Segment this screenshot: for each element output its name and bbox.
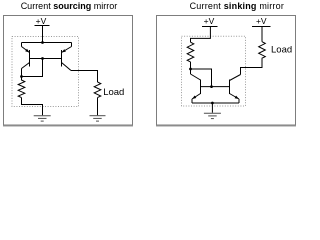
wire load to ground (97, 98, 99, 116)
right panel frame bottom shade (156, 125, 296, 127)
+V rail bar left panel (35, 25, 50, 27)
node collector junction (20, 75, 23, 78)
wire +V to R2 (191, 27, 211, 43)
ground load (left panel) (90, 116, 106, 121)
ground left panel main (34, 116, 51, 121)
left panel frame bottom shade (3, 125, 133, 127)
wire +V down to rail (42, 26, 44, 43)
node base junction (41, 57, 44, 60)
node rail junction (41, 41, 44, 44)
wire diode connection to bases (191, 69, 212, 87)
transistor Q1 (left PNP) (22, 43, 30, 77)
wire R1 to ground (22, 98, 43, 116)
wire +V to load resistor (261, 27, 263, 42)
svg-text:Current sourcing mirror: Current sourcing mirror (21, 1, 118, 11)
resistor Load (right panel) (259, 42, 266, 59)
wire diode connection base to collector (22, 59, 43, 77)
wire Q2 collector to load (71, 71, 98, 83)
+V bar right panel right (252, 26, 271, 28)
wire R2 to collector node (190, 62, 192, 69)
transistor Q3 (left NPN) (191, 69, 201, 103)
svg-text:Load: Load (103, 87, 124, 98)
resistor Load (left panel) (94, 82, 101, 98)
wire emitter rail (192, 102, 239, 104)
resistor R1 (18, 77, 25, 98)
wire Q4 collector to load (241, 59, 263, 75)
left dashed mirror box (12, 37, 79, 107)
node base junction right panel (210, 85, 213, 88)
wire base link Q3-Q4 (201, 86, 230, 88)
svg-text:+V: +V (204, 16, 215, 26)
left panel frame (4, 16, 133, 126)
node emitter rail junction (211, 102, 214, 105)
wire base link Q1-Q2 (30, 58, 62, 60)
svg-text:Current sinking mirror: Current sinking mirror (190, 1, 284, 11)
+V bar right panel left (202, 26, 218, 28)
wire top rail (22, 42, 72, 44)
right panel frame (157, 16, 296, 126)
transistor Q2 (right PNP) (62, 43, 72, 71)
svg-text:+V: +V (36, 16, 47, 26)
svg-text:Load: Load (271, 44, 292, 55)
right dashed mirror box (182, 36, 246, 106)
wire rail to ground (211, 103, 213, 113)
node R2/collector junction (189, 68, 192, 71)
ground right panel (204, 113, 221, 118)
resistor R2 (187, 42, 194, 62)
svg-text:+V: +V (256, 16, 267, 26)
transistor Q4 (right NPN) (230, 75, 241, 104)
